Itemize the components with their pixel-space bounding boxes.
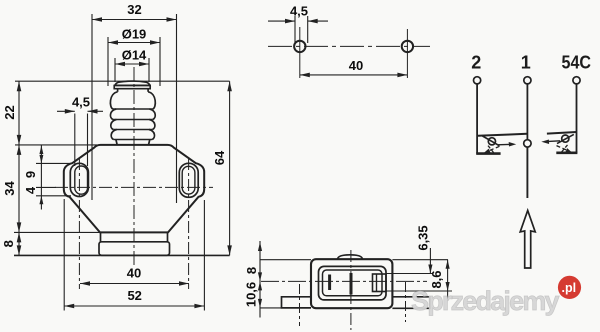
actuation direction arrow [520,211,535,269]
watermark red circle .pl [558,276,581,299]
terminal 2 circle [474,77,481,84]
dim 52 extension lines [63,199,65,311]
top view horizontal centerline [268,45,430,47]
dim Ø14 extension lines [114,58,116,82]
side view inner shroud outer wall [319,266,387,300]
side view right mounting tab [392,297,430,309]
dim 6,35 line [429,248,431,274]
side view right tab hole centerline [405,282,407,322]
svg-text:Ø19: Ø19 [122,27,147,42]
top view hole left [294,41,305,52]
svg-text:4,5: 4,5 [72,95,90,110]
dim 4,5 front extension lines [74,114,76,167]
extension line body-bottom reference y=232.5 [14,231,100,233]
svg-text:6,35: 6,35 [415,225,430,250]
svg-text:9: 9 [23,171,38,178]
terminal 1 circle [524,77,531,84]
dim 9/4 branch lines [36,162,71,164]
switch body outline [64,145,204,233]
right fixed contact bar [547,132,577,134]
right moving arm with arrowhead [549,140,561,143]
top view right hole vertical centerline [406,29,408,78]
right contact circle [562,135,569,142]
svg-text:4: 4 [23,186,38,194]
svg-text:2: 2 [471,53,481,73]
left contact lever diagonal [483,136,500,146]
dim 22 arrows [17,81,22,91]
svg-text:54C: 54C [562,53,592,73]
top view hole right [402,41,413,52]
side view inner shroud inner wall [323,270,383,296]
bellows lower stem [116,140,117,145]
front view vertical centerline [133,67,135,266]
boot cap dome [115,81,150,85]
svg-text:Ø14: Ø14 [122,48,147,63]
left travel dashes with arrow [487,146,500,151]
dim 9/4 arrows [39,146,43,155]
dim 8/10,6 vertical line [259,241,261,318]
svg-text:10,6: 10,6 [243,282,258,307]
dim Ø19 extension lines [107,37,109,86]
dim 4,5 top view [268,20,295,22]
dim 8,6 line [447,260,449,301]
side view horizontal centerline [261,280,427,282]
body bottom step [100,232,102,241]
dim 6,35/8,6 extension lines [392,259,448,261]
svg-text:64: 64 [212,150,227,165]
left mounting slot outer [70,163,88,196]
side view left mounting tab [282,297,312,308]
dim 8/10,6 extension lines [260,259,311,261]
dim 8 arrows [17,232,22,242]
extension line base-bottom reference y=255.4 [14,254,230,256]
dim 32 line [92,19,177,21]
left mounting slot inner [75,166,88,194]
base boss [99,242,170,256]
bellows convolution 3 [111,120,117,130]
svg-text:8: 8 [244,267,259,274]
right mounting slot outer [179,163,198,197]
terminal 54C circle [573,77,580,84]
right mounting slot inner [182,166,195,194]
pivot contact circle [524,140,531,147]
dim 32 extension line right x=176 [176,14,178,203]
right travel dashes with arrow [557,146,570,152]
svg-text:22: 22 [2,105,17,119]
dimension chain line 22/34/8 [18,81,20,255]
svg-text:Sprzedajemy: Sprzedajemy [411,286,560,316]
dim Ø14 line [115,63,149,65]
side view blade pin center [350,273,353,295]
side view left tab hole centerline [299,284,301,326]
side view center vertical centerline [350,250,352,330]
dim 9/4 vertical line [40,146,42,210]
side view top bump [338,255,363,259]
dim 52 line [64,305,204,307]
dim 40 front line [80,283,189,285]
svg-text:4,5: 4,5 [290,4,308,19]
svg-text:34: 34 [2,181,17,196]
left moving arm with arrowhead [497,143,509,145]
slots horizontal centerline [55,186,213,188]
dim 64 line [229,81,231,255]
svg-text:8: 8 [1,240,16,247]
right slot vertical centerline [188,158,190,289]
left slot vertical centerline [78,158,80,289]
left contact circle [488,138,495,145]
side view housing outline [311,259,392,308]
svg-text:1: 1 [521,53,531,73]
dim 32 extension line left x=92 [91,14,93,200]
bellows convolution 2 [110,109,116,120]
boot neck [117,89,119,92]
svg-text:40: 40 [349,58,363,73]
wire terminal 54C down and foot [576,84,578,153]
dim Ø19 line [108,42,160,44]
wire terminal 1 down [526,84,528,140]
bellows convolution 1 [110,92,117,109]
dim 34 arrows [17,145,22,155]
svg-text:40: 40 [127,266,141,281]
svg-text:52: 52 [127,288,141,303]
boot cap brim [114,85,150,88]
side view blade pin left [328,275,331,291]
right contact lever diagonal [557,134,574,143]
wire below pivot [526,147,528,198]
svg-text:32: 32 [127,2,141,17]
extension line top reference y=81 [15,80,230,82]
bellows convolution 4 [111,130,117,140]
svg-text:.pl: .pl [562,281,577,295]
top view left hole vertical centerline [299,27,301,78]
wire terminal 2 down and foot [476,84,478,154]
extension line body-top reference y=145 [15,144,97,146]
left fixed contact bar [478,134,527,136]
side view blade receptacle right [373,274,387,292]
dim 40 top view line [300,74,408,76]
dim 4,5 front line and arrows [57,110,75,112]
